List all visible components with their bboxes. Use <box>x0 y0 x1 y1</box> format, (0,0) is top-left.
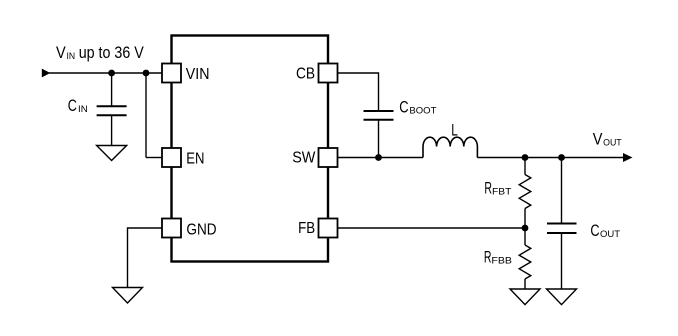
input arrow <box>42 69 51 78</box>
wire CBOOT to SW node <box>378 120 380 158</box>
wire RFBT top <box>524 158 526 175</box>
wire RFBT bottom <box>524 209 526 229</box>
svg-text:V: V <box>56 44 66 62</box>
wire RFBB top <box>524 228 526 245</box>
VOUT arrow <box>623 153 633 162</box>
svg-text:C: C <box>590 222 599 240</box>
wire CIN top <box>111 73 113 106</box>
svg-text:SW: SW <box>292 149 316 166</box>
svg-text:L: L <box>451 122 458 140</box>
svg-text:V: V <box>593 130 603 148</box>
wire SW to inductor <box>338 157 424 159</box>
label RFBT <box>484 180 511 198</box>
label CBOOT <box>399 98 436 116</box>
node input junction CIN <box>108 70 115 77</box>
wire EN horizontal <box>146 157 162 159</box>
wire EN vertical <box>145 73 147 158</box>
wire COUT bottom <box>561 233 563 289</box>
pin CB box <box>319 64 338 83</box>
svg-text:GND: GND <box>186 221 216 238</box>
svg-text:IN: IN <box>78 104 88 115</box>
node SW CBOOT junction <box>375 154 382 161</box>
node output junction RFBT <box>522 154 529 161</box>
ground RFBB <box>510 289 540 305</box>
label CIN <box>68 97 88 115</box>
wire COUT top <box>561 158 563 224</box>
label RFBB <box>484 249 512 267</box>
wire GND to ground <box>128 228 163 288</box>
resistor RFBT <box>519 175 531 209</box>
svg-text:C: C <box>68 97 77 115</box>
label COUT <box>590 222 620 240</box>
wire FB <box>338 227 526 229</box>
node output junction COUT <box>558 154 565 161</box>
ground COUT <box>547 289 577 305</box>
op-amp U1 IC body <box>172 36 329 262</box>
resistor RFBB <box>519 245 531 279</box>
svg-text:BOOT: BOOT <box>409 105 436 116</box>
svg-text:IN: IN <box>67 51 76 62</box>
svg-text:up to 36 V: up to 36 V <box>79 44 144 62</box>
svg-text:VIN: VIN <box>186 66 210 83</box>
wire RFBB bottom <box>524 279 526 289</box>
pin FB box <box>319 219 338 238</box>
svg-text:FB: FB <box>298 220 315 237</box>
ground GND pin <box>113 288 143 304</box>
svg-text:OUT: OUT <box>603 137 622 148</box>
pin VIN box <box>162 64 181 83</box>
svg-text:FBB: FBB <box>491 256 512 267</box>
svg-text:R: R <box>484 180 492 198</box>
pin GND box <box>162 219 181 238</box>
pin EN box <box>162 148 181 167</box>
capacitor CIN <box>97 106 127 115</box>
label VIN up to 36 V <box>56 44 144 62</box>
label VOUT <box>593 130 622 148</box>
svg-text:R: R <box>484 249 492 267</box>
capacitor CBOOT <box>364 111 394 120</box>
wire inductor to output <box>477 157 623 159</box>
svg-text:EN: EN <box>186 151 204 168</box>
wire CIN bottom <box>111 115 113 145</box>
svg-text:CB: CB <box>296 65 315 82</box>
svg-text:FBT: FBT <box>492 186 512 197</box>
wire CB to CBOOT <box>338 73 379 111</box>
capacitor COUT <box>547 224 577 234</box>
inductor L <box>423 137 477 157</box>
wire input to VIN <box>49 72 162 74</box>
svg-text:OUT: OUT <box>600 229 620 240</box>
node FB junction <box>522 225 529 232</box>
node input junction EN <box>143 70 150 77</box>
pin SW box <box>319 148 338 167</box>
ground CIN <box>97 146 127 161</box>
svg-text:C: C <box>399 98 408 116</box>
